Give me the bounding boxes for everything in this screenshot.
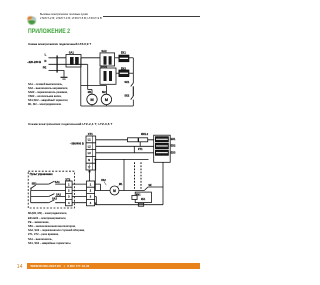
wire SA2 to EK1 [115, 57, 119, 59]
heater EK3 [155, 150, 168, 155]
svg-text:L2: L2 [88, 145, 92, 148]
wire XT1 to XT3 [89, 170, 91, 181]
svg-text:М1: М1 [88, 90, 92, 94]
header text [40, 13, 88, 16]
wire bus segment [132, 86, 134, 96]
svg-text:1: 1 [68, 183, 70, 186]
legend 2 [28, 212, 85, 246]
wire left bus [80, 58, 82, 106]
wire bottom [81, 105, 134, 107]
wire EK1 to bus [129, 57, 133, 59]
motor M1 [110, 186, 119, 195]
svg-text:1: 1 [90, 183, 92, 186]
wires XT2 to XT3 [72, 184, 86, 203]
wire row1 to motor [95, 184, 101, 190]
svg-text:М2: М2 [102, 90, 106, 94]
svg-text:3: 3 [68, 196, 70, 199]
wire bus bottom [132, 100, 134, 106]
wire row3 [31, 196, 49, 198]
coil KT1 on bus [138, 203, 143, 206]
terminal block XT1 [86, 136, 96, 170]
ground [61, 76, 68, 78]
terminal block XT3 [87, 181, 95, 206]
wire motor out [119, 190, 144, 192]
SCHEMATIC 2 [25, 128, 180, 210]
control panel box [28, 171, 74, 208]
wire PE [49, 71, 65, 77]
svg-text:Пульт управления: Пульт управления [30, 173, 53, 176]
svg-text:КН1: КН1 [141, 199, 146, 201]
wire row3 drop [95, 197, 97, 205]
svg-text:L: L [45, 53, 47, 57]
wire motor feed [95, 190, 110, 192]
terminal block XT2 [66, 181, 73, 206]
wire N [96, 158, 149, 160]
contactor KM1.2 contacts [128, 138, 139, 142]
svg-text:ЕК3: ЕК3 [171, 151, 176, 154]
thermal link dashed 2 [140, 162, 142, 189]
wire panel left bus [30, 190, 32, 202]
motor M2 [101, 94, 111, 104]
svg-text:N: N [44, 59, 46, 63]
switch SA3 [49, 200, 66, 203]
wire drop L2-L3 [133, 146, 135, 153]
svg-text:3: 3 [90, 196, 92, 199]
heater EK2 [155, 143, 168, 148]
svg-text:L1: L1 [88, 139, 92, 142]
svg-text:2: 2 [90, 190, 92, 193]
switch SA2 [100, 53, 115, 66]
wire M2 stub top [105, 86, 107, 95]
connector XS02 bar [56, 55, 58, 72]
header logo [27, 15, 38, 26]
wire SA03 to EK2 [116, 72, 119, 74]
wire N [49, 63, 88, 65]
wire EK2 to bus [129, 72, 133, 74]
svg-text:~380/400 В: ~380/400 В [70, 141, 84, 145]
svg-text:SA1: SA1 [55, 181, 60, 184]
wire right bus [162, 162, 164, 204]
button SB1 [30, 188, 31, 189]
svg-text:L3: L3 [88, 152, 92, 155]
svg-text:ЕК2: ЕК2 [171, 145, 176, 148]
svg-text:4: 4 [90, 202, 92, 205]
svg-text:M: M [90, 97, 94, 102]
motor M1 [87, 94, 97, 104]
wire row2 [31, 189, 66, 191]
heater EK1 [155, 137, 168, 142]
footer bar [27, 263, 200, 269]
wire motor feed A [81, 85, 107, 87]
wire L [49, 57, 67, 59]
svg-text:SК1: SК1 [124, 80, 129, 84]
wire N drop [94, 159, 96, 190]
wire right bus [132, 58, 134, 83]
heater block [154, 135, 171, 162]
relay KM1 box [135, 192, 151, 203]
thermal switch SK [144, 187, 163, 191]
title schematic 2 [28, 122, 113, 126]
heading ПРИЛОЖЕНИЕ 2 [28, 28, 70, 35]
svg-text:КТ1: КТ1 [138, 148, 143, 151]
svg-text:КМ1.2: КМ1.2 [141, 133, 149, 136]
wire row4 drop [94, 203, 97, 205]
wire phase L2 [96, 145, 154, 147]
wire row4 [31, 202, 49, 204]
wire motor feed B [88, 89, 92, 91]
svg-text:ЕК1: ЕК1 [171, 138, 176, 141]
heater EK2 [119, 70, 129, 77]
contact small left [132, 195, 137, 199]
footer page number [17, 264, 23, 270]
junction N [95, 159, 97, 161]
thermal switch SK1 [131, 83, 134, 86]
svg-text:M: M [105, 97, 109, 102]
thermal switch SK2 [131, 96, 134, 100]
svg-text:ЕК1: ЕК1 [121, 51, 126, 55]
svg-text:PE: PE [43, 65, 47, 69]
header rule [103, 16, 200, 17]
switch SA1 [49, 181, 66, 184]
heater EK1 [119, 55, 129, 62]
wire drop L1-L2 [139, 142, 141, 147]
switch SA2 [49, 194, 66, 197]
PE symbol in XT1 [88, 164, 91, 168]
wire row1 [36, 183, 49, 185]
wire N bus [87, 64, 89, 89]
legend 1 [28, 83, 68, 107]
wire M1 stub bottom [91, 105, 93, 106]
svg-text:M: M [113, 189, 116, 193]
svg-text:SК2: SК2 [124, 93, 129, 97]
svg-text:N: N [88, 159, 90, 162]
svg-text:~220-230 В: ~220-230 В [27, 60, 41, 64]
wire M2 stub bottom [105, 105, 107, 106]
svg-text:4: 4 [68, 202, 70, 205]
wire phase L1 [96, 139, 154, 141]
junction connector [89, 171, 91, 173]
SCHEMATIC 1 [25, 46, 137, 110]
svg-text:2: 2 [68, 190, 70, 193]
wire M1 stub top [91, 90, 93, 95]
switch SA1 [66, 55, 81, 68]
switch SA03 [100, 68, 116, 84]
title schematic 1 [28, 42, 91, 46]
svg-text:SA3: SA3 [52, 198, 57, 201]
wire phase L3 [96, 152, 154, 154]
thermal link dashed 1 [134, 162, 136, 189]
wire SA1 to SA2 [81, 57, 100, 59]
svg-text:М1: М1 [119, 183, 123, 186]
svg-text:ХS2: ХS2 [101, 179, 106, 182]
svg-text:SA1: SA1 [69, 50, 75, 54]
svg-text:ХТ1: ХТ1 [88, 132, 93, 136]
wire mid drop [123, 159, 125, 190]
wire bottom bus [96, 204, 164, 206]
